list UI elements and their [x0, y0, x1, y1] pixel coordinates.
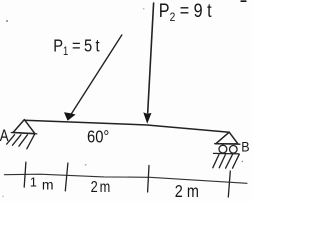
- support B hatching: [213, 154, 219, 167]
- scan speck left of P2 line: [143, 8, 145, 10]
- dimension tick 1: [24, 162, 26, 187]
- dimension tick 3: [148, 166, 149, 193]
- scan speck above dimension line: [85, 164, 87, 166]
- support B ground line: [214, 152, 240, 155]
- support B roller 1: [219, 145, 227, 153]
- svg-text:2 m: 2 m: [91, 179, 111, 197]
- svg-text:A: A: [0, 127, 9, 146]
- support A base line: [11, 133, 37, 134]
- svg-text:m: m: [42, 176, 54, 192]
- scan speck near top left: [6, 20, 8, 22]
- svg-text:1: 1: [30, 174, 37, 189]
- force P1 line: [72, 35, 122, 114]
- support A hatching: [7, 135, 15, 144]
- svg-text:B: B: [241, 139, 250, 155]
- svg-text:P2 = 9 t: P2 = 9 t: [159, 0, 212, 24]
- support A triangle: [13, 120, 35, 134]
- arrowhead P2: [143, 112, 151, 123]
- force P2 line: [148, 3, 154, 113]
- dimension line: [4, 174, 247, 183]
- dimension tick 2: [65, 163, 68, 191]
- beam: [24, 120, 229, 132]
- support B base line: [215, 143, 240, 146]
- svg-text:2 m: 2 m: [175, 183, 199, 201]
- scan speck bottom left: [2, 196, 4, 198]
- stray scan dash top right corner: [240, 0, 246, 2]
- support B triangle: [216, 132, 238, 144]
- arrowhead P1: [64, 112, 76, 120]
- svg-text:P1 = 5 t: P1 = 5 t: [53, 36, 100, 58]
- scan speck right of B hatching: [242, 161, 244, 163]
- svg-text:60°: 60°: [87, 128, 109, 147]
- dimension tick 4: [228, 171, 230, 197]
- support B roller 2: [230, 146, 238, 154]
